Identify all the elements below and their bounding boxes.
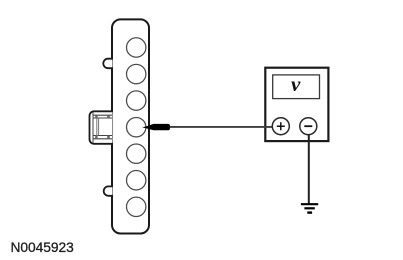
ground bar 3 (307, 211, 312, 213)
minus terminal (300, 118, 317, 135)
pin cavity 2 (127, 64, 146, 83)
connector body (112, 19, 149, 233)
latch top tick right (107, 115, 110, 118)
latch bottom rail lines (93, 135, 112, 137)
upper tab (103, 59, 112, 68)
latch inner vertical left line (92, 112, 94, 143)
probe arrowhead (142, 124, 170, 130)
pin cavity 1 (127, 38, 146, 57)
voltmeter box V1 (265, 68, 328, 141)
pin cavity 4 (probed) (127, 117, 146, 136)
latch bottom tick right (107, 136, 110, 139)
pin cavity 7 (127, 197, 146, 216)
minus sign (304, 125, 312, 127)
probe wire (167, 126, 274, 128)
figure label N0045923 (11, 240, 74, 255)
latch bottom tick left (95, 136, 97, 139)
latch housing (90, 111, 113, 144)
svg-text:ν: ν (291, 72, 301, 96)
ground bar 1 (301, 203, 318, 205)
pin cavity 5 (127, 144, 146, 163)
latch top rail lines (93, 114, 112, 116)
latch middle vertical lines (96, 118, 98, 136)
pin cavity 6 (127, 171, 146, 190)
plus terminal (272, 118, 289, 135)
ground bar 2 (304, 207, 314, 209)
voltmeter display (273, 75, 320, 99)
lower tab (104, 186, 113, 195)
plus sign (277, 122, 285, 130)
ground wire (308, 135, 310, 204)
latch top tick left (95, 115, 97, 118)
pin cavity 3 (127, 91, 146, 110)
